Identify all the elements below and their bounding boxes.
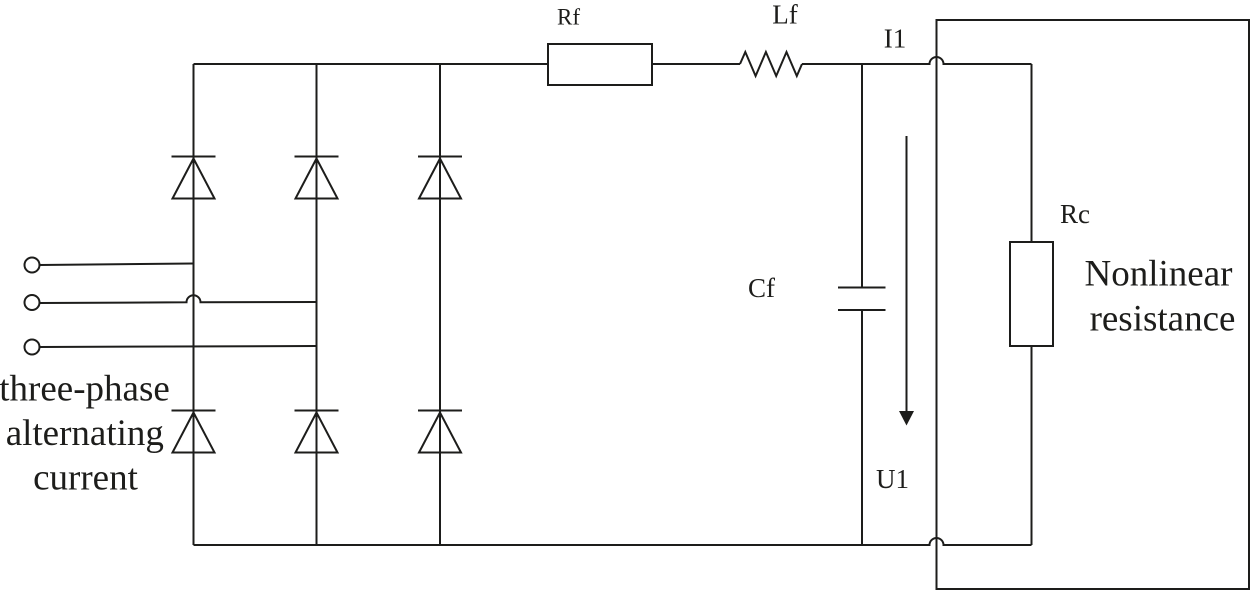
- wire phase-b with hop over leg1: [40, 295, 317, 303]
- label three-phase alternating current: [0, 368, 170, 498]
- terminal T3: [25, 340, 40, 355]
- enclosure box: [937, 20, 1250, 589]
- capacitor Cf plates: [838, 288, 886, 311]
- diode D5: [418, 157, 462, 199]
- svg-text:three-phase: three-phase: [0, 368, 170, 409]
- wire phase-c: [40, 346, 317, 347]
- resistor Rf: [548, 44, 652, 85]
- terminal T2: [25, 295, 40, 310]
- wire top bus right with hop over box edge: [802, 57, 1032, 64]
- resistor Rc: [1010, 242, 1053, 346]
- svg-text:Lf: Lf: [772, 0, 797, 29]
- inductor Lf zigzag: [740, 52, 802, 76]
- svg-text:U1: U1: [876, 464, 909, 494]
- wire bridge leg 3: [439, 64, 441, 545]
- diode D6: [418, 411, 462, 453]
- wire phase-a: [40, 264, 194, 266]
- wire bridge leg 2: [316, 64, 318, 545]
- wire Rc branch top: [1031, 64, 1033, 242]
- diode D3: [295, 157, 339, 199]
- arrow I1 head: [899, 411, 914, 426]
- wire bottom bus with hop over box edge: [194, 538, 1032, 545]
- wire Cf branch bottom: [861, 310, 863, 545]
- label Nonlinear resistance: [1085, 254, 1236, 340]
- svg-text:Cf: Cf: [748, 273, 775, 303]
- diode D2: [172, 411, 216, 453]
- svg-text:I1: I1: [884, 23, 907, 53]
- arrow I1 shaft: [906, 136, 908, 412]
- svg-text:Nonlinear: Nonlinear: [1085, 254, 1233, 295]
- wire top bus left: [194, 63, 549, 65]
- diode D1: [172, 157, 216, 199]
- svg-text:resistance: resistance: [1090, 299, 1236, 340]
- svg-text:alternating: alternating: [6, 413, 164, 454]
- wire Cf branch top: [861, 64, 863, 288]
- svg-text:Rc: Rc: [1060, 199, 1090, 229]
- svg-text:current: current: [33, 457, 138, 498]
- terminal T1: [25, 258, 40, 273]
- wire bridge leg 1: [193, 64, 195, 545]
- wire Rc branch bottom: [1031, 346, 1033, 545]
- svg-text:Rf: Rf: [557, 5, 580, 30]
- diode D4: [295, 411, 339, 453]
- wire Rf to Lf: [652, 63, 740, 65]
